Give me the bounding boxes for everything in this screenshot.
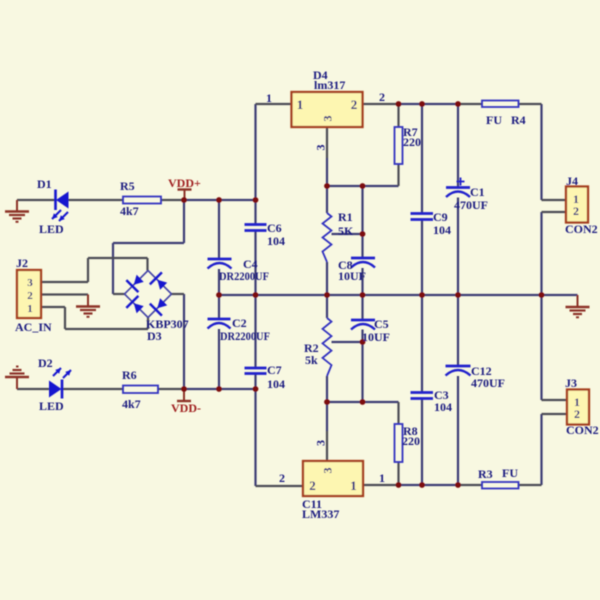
svg-text:2: 2: [27, 290, 33, 302]
svg-text:R3: R3: [478, 467, 493, 481]
svg-text:LED: LED: [39, 399, 64, 413]
svg-text:2: 2: [379, 90, 385, 104]
svg-text:lm317: lm317: [314, 78, 345, 92]
svg-text:J4: J4: [566, 174, 578, 188]
svg-text:C7: C7: [267, 363, 282, 377]
svg-text:R1: R1: [338, 210, 353, 224]
svg-text:LED: LED: [39, 222, 64, 236]
svg-text:D1: D1: [37, 177, 52, 191]
svg-text:4k7: 4k7: [120, 204, 139, 218]
svg-text:J2: J2: [16, 256, 28, 270]
svg-text:10UF: 10UF: [338, 269, 366, 283]
svg-text:C9: C9: [433, 210, 448, 224]
svg-text:470UF: 470UF: [454, 198, 488, 212]
svg-text:1: 1: [379, 471, 385, 485]
svg-text:3: 3: [27, 277, 33, 289]
svg-text:VDD-: VDD-: [171, 401, 201, 415]
svg-text:LM337: LM337: [302, 507, 339, 521]
svg-text:2: 2: [573, 204, 579, 218]
svg-text:104: 104: [434, 400, 452, 414]
svg-text:10UF: 10UF: [362, 330, 390, 344]
svg-text:3: 3: [321, 468, 335, 474]
svg-text:2: 2: [309, 478, 316, 493]
svg-text:470UF: 470UF: [471, 376, 505, 390]
svg-text:104: 104: [267, 377, 285, 391]
svg-text:C5: C5: [374, 317, 389, 331]
svg-text:FU: FU: [486, 113, 502, 127]
svg-text:104: 104: [267, 234, 285, 248]
svg-text:R5: R5: [120, 179, 135, 193]
svg-text:FU: FU: [502, 466, 518, 480]
svg-text:DR2200UF: DR2200UF: [219, 269, 269, 283]
svg-text:CON2: CON2: [565, 222, 598, 236]
svg-text:AC_IN: AC_IN: [15, 320, 52, 334]
svg-text:2: 2: [279, 471, 285, 485]
svg-text:220: 220: [402, 434, 420, 448]
svg-text:4k7: 4k7: [122, 397, 141, 411]
svg-text:3: 3: [321, 116, 335, 122]
svg-text:220: 220: [403, 135, 421, 149]
svg-text:CON2: CON2: [566, 423, 599, 437]
svg-text:R4: R4: [511, 113, 526, 127]
svg-text:D3: D3: [147, 329, 162, 343]
svg-text:1: 1: [27, 303, 33, 315]
svg-text:C2: C2: [232, 316, 247, 330]
svg-text:1: 1: [297, 97, 304, 112]
svg-text:2: 2: [574, 407, 580, 421]
svg-text:R6: R6: [122, 368, 137, 382]
svg-text:5K: 5K: [338, 224, 354, 238]
svg-text:C6: C6: [267, 221, 282, 235]
svg-text:3: 3: [314, 440, 328, 446]
svg-text:D2: D2: [38, 356, 53, 370]
svg-text:5k: 5k: [305, 353, 318, 367]
svg-text:1: 1: [266, 91, 272, 105]
svg-text:J3: J3: [565, 376, 577, 390]
svg-text:C1: C1: [470, 185, 485, 199]
svg-text:DR2200UF: DR2200UF: [220, 329, 270, 343]
svg-text:VDD+: VDD+: [168, 176, 201, 190]
svg-text:2: 2: [351, 97, 358, 112]
svg-text:3: 3: [314, 145, 328, 151]
svg-text:1: 1: [350, 478, 357, 493]
svg-text:104: 104: [433, 223, 451, 237]
